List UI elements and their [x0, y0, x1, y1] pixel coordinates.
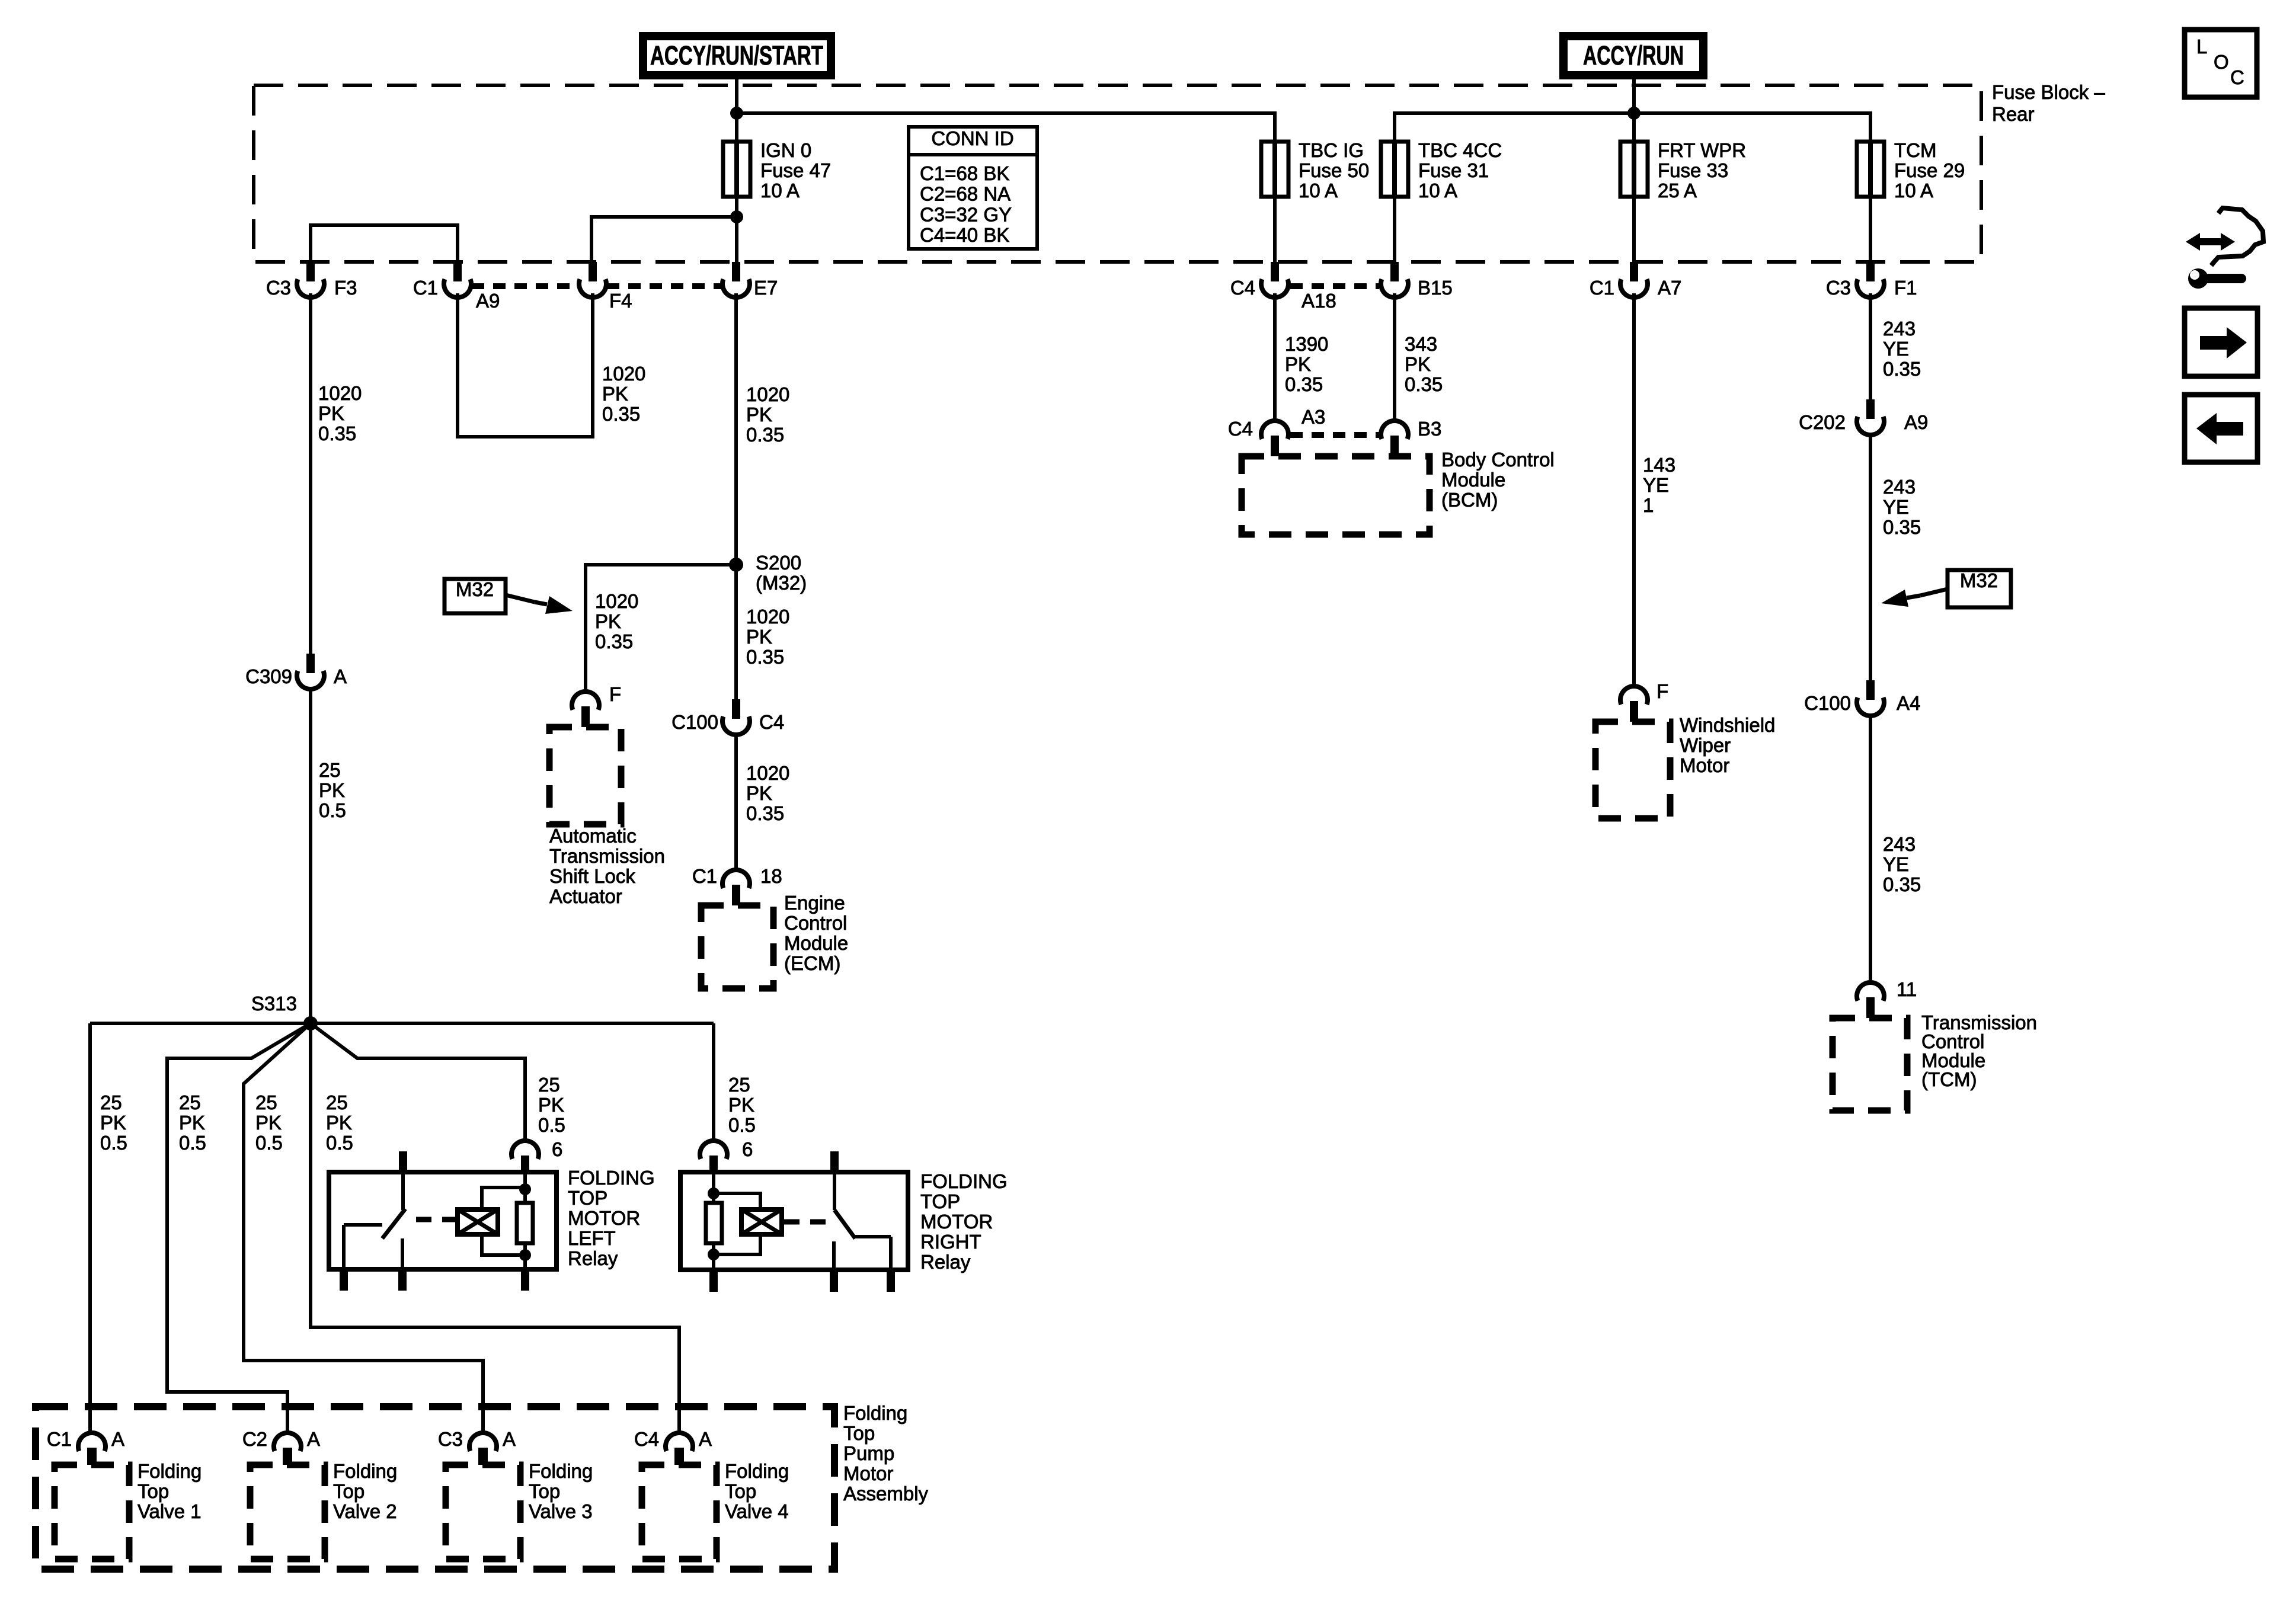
svg-text:Top: Top — [725, 1480, 756, 1502]
left relay coil bracket — [482, 1188, 525, 1255]
svg-text:C1: C1 — [47, 1428, 72, 1450]
svg-text:0.35: 0.35 — [1285, 373, 1323, 395]
component box Folding Top Valve 3 — [446, 1465, 520, 1559]
wire TBC IG fuse to terminal A18 — [1273, 197, 1277, 262]
svg-text:143: 143 — [1643, 454, 1675, 476]
right relay actuation dash link — [784, 1219, 829, 1225]
wire 1020 PK from F3 to C309 — [309, 293, 312, 654]
label Folding Top Valve 2 — [333, 1460, 397, 1522]
svg-text:C1: C1 — [1590, 277, 1614, 299]
connector C1 pin A of valve 1 — [78, 1433, 105, 1465]
right relay pin top (switch) — [830, 1151, 839, 1172]
label wire 25 PK 0.5 (right relay) — [728, 1074, 756, 1136]
wire S313 to valve 4 — [311, 1023, 679, 1433]
svg-text:Module: Module — [1441, 469, 1505, 491]
svg-text:F4: F4 — [609, 290, 632, 312]
label C202 — [1799, 411, 1846, 433]
svg-text:C4=40 BK: C4=40 BK — [920, 224, 1009, 246]
left relay junction top — [519, 1183, 531, 1195]
connector C3 pin A of valve 3 — [469, 1433, 497, 1465]
svg-text:ACCY/RUN: ACCY/RUN — [1583, 40, 1684, 71]
svg-text:25: 25 — [255, 1092, 277, 1113]
svg-text:C2=68 NA: C2=68 NA — [920, 183, 1011, 205]
svg-text:L: L — [2196, 36, 2207, 57]
label F — [609, 683, 621, 705]
label A4 — [1897, 692, 1920, 714]
svg-text:Pump: Pump — [843, 1442, 894, 1464]
svg-text:Top: Top — [843, 1422, 875, 1444]
svg-text:0.5: 0.5 — [326, 1132, 353, 1154]
svg-text:A: A — [334, 665, 347, 687]
svg-text:M32: M32 — [456, 578, 494, 600]
svg-text:Valve 1: Valve 1 — [137, 1500, 202, 1522]
wire IGN 0 fuse to terminal E7 — [735, 217, 738, 262]
fuse TCM Fuse 29 10A — [1857, 142, 1884, 197]
svg-text:C100: C100 — [671, 711, 718, 733]
svg-text:25: 25 — [728, 1074, 750, 1096]
connector C1 terminal F4 — [579, 262, 606, 297]
label C3 — [266, 277, 291, 299]
svg-text:FRT WPR: FRT WPR — [1658, 139, 1746, 161]
label E7 — [754, 277, 778, 299]
right relay pin bottom right — [887, 1270, 895, 1292]
CONN ID table box — [909, 127, 1037, 249]
connector C1 terminal E7 — [722, 262, 750, 297]
label C1 — [47, 1428, 72, 1450]
svg-text:CONN ID: CONN ID — [931, 127, 1013, 149]
label 6 (left relay) — [552, 1138, 562, 1160]
label wire 1020 PK 0.35 (C100-ECM) — [746, 762, 789, 824]
fuse IGN 0 Fuse 47 10A — [723, 142, 750, 217]
svg-text:Actuator: Actuator — [549, 885, 622, 907]
label A9 — [1904, 411, 1928, 433]
svg-text:0.35: 0.35 — [1405, 373, 1443, 395]
wire 1020 PK S200 to C100 — [734, 565, 738, 699]
wire 1390 PK A18 to BCM A3 — [1273, 293, 1277, 421]
svg-text:Folding: Folding — [137, 1460, 202, 1482]
connector C2 pin A of valve 2 — [274, 1433, 301, 1465]
svg-text:Rear: Rear — [1992, 103, 2035, 125]
wire 143 YE A7 to wiper motor — [1632, 293, 1636, 686]
left relay actuation dash link — [416, 1217, 455, 1222]
label TCM Fuse 29 10 A — [1894, 139, 1965, 201]
label Fuse Block - Rear — [1992, 81, 2105, 125]
svg-text:PK: PK — [746, 782, 772, 804]
label wire 1020 PK 0.35 (F4) — [602, 363, 645, 425]
left relay switch — [344, 1172, 405, 1269]
svg-text:PK: PK — [319, 779, 345, 801]
connector pin 6 of left relay — [511, 1141, 539, 1172]
svg-text:PK: PK — [538, 1094, 564, 1116]
callout M32 box — [445, 578, 506, 613]
label Folding Top Valve 3 — [529, 1460, 593, 1522]
svg-text:0.5: 0.5 — [319, 799, 346, 821]
connector terminal B15 — [1381, 262, 1408, 297]
svg-text:A9: A9 — [1904, 411, 1928, 433]
svg-text:YE: YE — [1883, 853, 1909, 875]
svg-text:Relay: Relay — [920, 1251, 971, 1273]
connector C4 pin A3 of BCM — [1261, 421, 1288, 456]
label A — [111, 1428, 124, 1450]
wire rail to TBC 4CC fuse — [1395, 113, 1634, 142]
svg-text:10 A: 10 A — [1299, 180, 1338, 201]
CONN ID title — [931, 127, 1013, 149]
svg-text:25: 25 — [538, 1074, 560, 1096]
svg-text:243: 243 — [1883, 833, 1916, 855]
svg-text:Control: Control — [784, 912, 847, 934]
label Folding Top Valve 1 — [137, 1460, 202, 1522]
label C100 — [1804, 692, 1851, 714]
connector terminal F shift lock — [572, 692, 599, 727]
label wire 25 PK 0.5 (left relay) — [538, 1074, 565, 1136]
callout M32 arrow — [506, 595, 573, 614]
svg-text:Shift Lock: Shift Lock — [549, 865, 635, 887]
label 6 (right relay) — [742, 1138, 753, 1160]
svg-text:0.5: 0.5 — [100, 1132, 127, 1154]
dotted connector body A3-B3 — [1290, 432, 1379, 438]
wire S313 to valve 1 — [88, 1023, 92, 1433]
svg-text:C3=32 GY: C3=32 GY — [920, 203, 1012, 225]
svg-text:YE: YE — [1883, 338, 1909, 360]
svg-text:YE: YE — [1643, 474, 1669, 496]
label C4 — [634, 1428, 659, 1450]
label wire 143 YE 1 — [1643, 454, 1675, 516]
label S313 — [251, 993, 297, 1014]
wire branch S200 to shift lock actuator — [586, 565, 736, 691]
svg-text:A: A — [503, 1428, 516, 1450]
label B3 — [1418, 418, 1441, 440]
junction on ACCY/RUN feed — [1627, 107, 1641, 120]
svg-text:1390: 1390 — [1285, 333, 1328, 355]
svg-text:C2: C2 — [242, 1428, 267, 1450]
CONN ID rows — [920, 162, 1012, 246]
label FOLDING TOP MOTOR LEFT Relay — [568, 1167, 655, 1269]
label C4 — [759, 711, 784, 733]
svg-text:0.5: 0.5 — [179, 1132, 206, 1154]
svg-text:IGN 0: IGN 0 — [760, 139, 811, 161]
label wire 1020 PK 0.35 (S200-C100) — [746, 606, 789, 668]
label FRT WPR Fuse 33 25 A — [1658, 139, 1746, 201]
svg-text:25 A: 25 A — [1658, 180, 1697, 201]
svg-text:C1=68 BK: C1=68 BK — [920, 162, 1009, 184]
svg-text:0.5: 0.5 — [538, 1114, 565, 1136]
svg-text:0.35: 0.35 — [1883, 873, 1921, 895]
left relay pin bottom left — [340, 1269, 348, 1291]
svg-text:A18: A18 — [1302, 290, 1336, 312]
connector C3 terminal F1 — [1857, 262, 1884, 297]
svg-text:0.35: 0.35 — [746, 424, 784, 446]
svg-text:TBC IG: TBC IG — [1299, 139, 1364, 161]
svg-text:PK: PK — [179, 1112, 205, 1134]
dotted connector body A9-F4-E7 — [472, 283, 722, 289]
right relay coil bracket — [714, 1193, 760, 1254]
svg-text:Top: Top — [137, 1480, 169, 1502]
svg-text:FOLDING: FOLDING — [920, 1170, 1008, 1192]
component box Engine Control Module (ECM) — [701, 905, 773, 988]
inline connector C309 terminal A — [297, 654, 324, 689]
wire TCM fuse to terminal F1 — [1869, 197, 1872, 262]
svg-text:Engine: Engine — [784, 892, 845, 914]
connector C1 terminal A7 — [1620, 262, 1648, 297]
svg-text:Fuse 29: Fuse 29 — [1894, 159, 1965, 181]
label Windshield Wiper Motor — [1680, 714, 1775, 776]
label wire 243 YE 0.35 (C100-TCM) — [1883, 833, 1921, 895]
label wire 1390 PK 0.35 — [1285, 333, 1328, 395]
svg-text:YE: YE — [1883, 496, 1909, 518]
label C100 — [671, 711, 718, 733]
svg-text:(ECM): (ECM) — [784, 952, 840, 974]
svg-text:B15: B15 — [1418, 277, 1453, 299]
left relay pin bottom right (coil) — [521, 1269, 529, 1291]
svg-text:25: 25 — [319, 759, 341, 781]
component box Folding Top Valve 2 — [250, 1465, 325, 1559]
svg-text:C4: C4 — [1228, 418, 1253, 440]
svg-text:Automatic: Automatic — [549, 825, 637, 847]
svg-text:E7: E7 — [754, 277, 778, 299]
label wire 25 PK 0.5 (valve1) — [100, 1092, 127, 1154]
icon arrow previous box — [2185, 395, 2257, 462]
svg-text:6: 6 — [742, 1138, 753, 1160]
svg-text:1020: 1020 — [746, 762, 789, 784]
label 11 — [1897, 978, 1917, 1000]
wire S313 to left relay pin 6 — [311, 1023, 525, 1141]
svg-text:0.5: 0.5 — [255, 1132, 283, 1154]
svg-text:ACCY/RUN/START: ACCY/RUN/START — [650, 40, 823, 71]
svg-text:Fuse 31: Fuse 31 — [1418, 159, 1489, 181]
callout M32 arrow right — [1881, 589, 1948, 607]
connector C1 pin 18 of ECM — [722, 870, 750, 905]
svg-text:A3: A3 — [1302, 406, 1325, 428]
svg-text:A: A — [699, 1428, 712, 1450]
label A9 — [476, 290, 500, 312]
label wire 243 YE 0.35 (F1) — [1883, 318, 1921, 380]
svg-text:F: F — [1657, 680, 1668, 702]
component box Folding Top Valve 1 — [55, 1465, 129, 1559]
wire S313 to valve 2 — [167, 1023, 311, 1433]
label wire 25 PK 0.5 (valve4) — [326, 1092, 353, 1154]
connector C4 pin A of valve 4 — [666, 1433, 693, 1465]
svg-text:RIGHT: RIGHT — [920, 1231, 981, 1253]
wire 25 PK from C309 to S313 — [309, 689, 312, 1023]
component box Body Control Module (BCM) — [1242, 456, 1430, 534]
splice S313 — [303, 1016, 318, 1030]
label IGN 0 Fuse 47 10 A — [760, 139, 831, 201]
label C1 — [1590, 277, 1614, 299]
svg-text:Fuse 47: Fuse 47 — [760, 159, 831, 181]
svg-text:PK: PK — [255, 1112, 282, 1134]
svg-text:(M32): (M32) — [756, 572, 807, 594]
wire S313 to right relay pin 6 — [712, 1023, 715, 1141]
relay box FOLDING TOP MOTOR RIGHT — [680, 1172, 908, 1270]
wire 1020 PK C100 to ECM pin 18 — [734, 735, 738, 871]
label Folding Top Valve 4 — [725, 1460, 789, 1522]
power feed tag ACCY/RUN — [1559, 32, 1707, 79]
svg-text:A: A — [307, 1428, 320, 1450]
svg-text:Fuse Block –: Fuse Block – — [1992, 81, 2105, 103]
wire 343 PK B15 to BCM B3 — [1393, 293, 1396, 421]
svg-text:C4: C4 — [1230, 277, 1255, 299]
left relay resistor — [517, 1172, 533, 1269]
fuse FRT WPR Fuse 33 25A — [1620, 142, 1648, 197]
right relay resistor — [706, 1172, 722, 1270]
wire rail to TCM fuse — [1634, 113, 1870, 142]
wire ACCY/RUN/START tag to IGN 0 fuse — [735, 79, 738, 142]
label TBC 4CC Fuse 31 10 A — [1418, 139, 1502, 201]
svg-text:PK: PK — [318, 402, 344, 424]
svg-text:F: F — [609, 683, 621, 705]
svg-text:0.35: 0.35 — [1883, 358, 1921, 380]
svg-text:25: 25 — [100, 1092, 122, 1113]
label C3 — [438, 1428, 463, 1450]
svg-text:243: 243 — [1883, 476, 1916, 498]
label wire 1020 PK 0.35 (F3) — [318, 382, 362, 444]
svg-text:C3: C3 — [266, 277, 291, 299]
label S200 (M32) — [756, 552, 807, 594]
right relay switch — [834, 1172, 891, 1270]
label FOLDING TOP MOTOR RIGHT Relay — [920, 1170, 1008, 1273]
svg-text:Wiper: Wiper — [1680, 734, 1731, 756]
svg-text:Module: Module — [784, 932, 848, 954]
assembly dashed box Folding Top Pump Motor Assembly — [36, 1407, 834, 1569]
svg-text:Motor: Motor — [843, 1462, 893, 1484]
connector C3 terminal F3 — [297, 262, 324, 297]
right relay pin bottom center — [830, 1270, 838, 1292]
dotted connector body A18-B15 — [1290, 283, 1379, 289]
connector C4 terminal A18 — [1261, 262, 1288, 297]
svg-text:TOP: TOP — [568, 1187, 607, 1209]
label Automatic Transmission Shift Lock Actuator — [549, 825, 665, 907]
label A7 — [1658, 277, 1681, 299]
left relay pin bottom center — [398, 1269, 407, 1291]
jumper wire from IGN 0 fuse to terminal F4 — [591, 217, 737, 262]
wire FRT WPR fuse to terminal A7 — [1632, 197, 1636, 262]
svg-text:PK: PK — [1405, 353, 1431, 375]
right relay junction top — [708, 1188, 720, 1199]
svg-text:Transmission: Transmission — [549, 845, 665, 867]
svg-text:C309: C309 — [245, 665, 292, 687]
component box Folding Top Valve 4 — [642, 1465, 717, 1559]
svg-text:343: 343 — [1405, 333, 1437, 355]
svg-text:1: 1 — [1643, 494, 1654, 516]
label B15 — [1418, 277, 1453, 299]
callout M32 box right — [1948, 569, 2011, 607]
svg-text:B3: B3 — [1418, 418, 1441, 440]
left relay coil element — [458, 1209, 498, 1234]
svg-text:1020: 1020 — [595, 590, 638, 612]
label C4 — [1228, 418, 1253, 440]
svg-text:C1: C1 — [692, 865, 717, 887]
svg-text:LEFT: LEFT — [568, 1227, 616, 1249]
inline connector C100 terminal C4 — [722, 699, 750, 735]
svg-text:A4: A4 — [1897, 692, 1920, 714]
svg-text:PK: PK — [100, 1112, 126, 1134]
wire 243 YE C202 to C100 — [1869, 435, 1872, 680]
svg-text:1020: 1020 — [746, 606, 789, 628]
junction below IGN 0 fuse — [730, 210, 743, 223]
svg-text:Assembly: Assembly — [843, 1483, 929, 1505]
svg-text:TOP: TOP — [920, 1190, 960, 1212]
fuse TBC 4CC Fuse 31 10A — [1381, 142, 1408, 197]
wire rail to TBC IG fuse — [737, 113, 1275, 142]
label F4 — [609, 290, 632, 312]
svg-text:Motor: Motor — [1680, 754, 1729, 776]
icon LOC box — [2185, 30, 2257, 97]
inline connector C202 terminal A9 — [1857, 399, 1884, 435]
label 18 — [760, 865, 782, 887]
label F3 — [334, 277, 357, 299]
svg-text:0.5: 0.5 — [728, 1114, 756, 1136]
label Folding Top Pump Motor Assembly — [843, 1402, 929, 1505]
left relay junction bottom — [519, 1249, 531, 1261]
svg-text:10 A: 10 A — [1418, 180, 1457, 201]
label F — [1657, 680, 1668, 702]
label C4 — [1230, 277, 1255, 299]
fuse TBC IG Fuse 50 10A — [1261, 142, 1288, 197]
svg-text:S200: S200 — [756, 552, 801, 574]
svg-text:O: O — [2214, 51, 2229, 73]
connector pin 11 of TCM — [1857, 982, 1884, 1018]
wire 1020 PK loop A9 to F4 — [458, 293, 593, 437]
right relay coil element — [741, 1209, 782, 1234]
svg-text:Body Control: Body Control — [1441, 449, 1555, 470]
label A — [307, 1428, 320, 1450]
svg-text:18: 18 — [760, 865, 782, 887]
svg-text:PK: PK — [728, 1094, 754, 1116]
svg-text:11: 11 — [1897, 978, 1917, 1000]
label Engine Control Module (ECM) — [784, 892, 848, 974]
svg-text:FOLDING: FOLDING — [568, 1167, 655, 1189]
svg-text:A: A — [111, 1428, 124, 1450]
svg-text:A7: A7 — [1658, 277, 1681, 299]
svg-text:(TCM): (TCM) — [1921, 1068, 1977, 1090]
svg-text:PK: PK — [1285, 353, 1311, 375]
svg-text:0.35: 0.35 — [595, 630, 633, 652]
label C309 — [245, 665, 292, 687]
label Body Control Module (BCM) — [1441, 449, 1555, 511]
label C2 — [242, 1428, 267, 1450]
svg-text:Fuse 33: Fuse 33 — [1658, 159, 1728, 181]
svg-text:Folding: Folding — [529, 1460, 593, 1482]
connector terminal F wiper motor — [1620, 686, 1648, 722]
svg-text:0.35: 0.35 — [602, 403, 640, 425]
label wire 25 PK 0.5 (valve3) — [255, 1092, 283, 1154]
svg-text:Windshield: Windshield — [1680, 714, 1775, 736]
right relay junction bottom — [708, 1249, 720, 1260]
svg-text:0.35: 0.35 — [318, 422, 356, 444]
fuse block dashed boundary (Fuse Block - Rear) — [254, 85, 1981, 262]
svg-text:Relay: Relay — [568, 1247, 618, 1269]
wire 1020 PK from E7 to S200 — [734, 293, 738, 565]
svg-text:MOTOR: MOTOR — [920, 1211, 993, 1233]
component box Windshield Wiper Motor — [1595, 722, 1670, 818]
svg-text:Folding: Folding — [333, 1460, 397, 1482]
connector pin B3 of BCM — [1381, 421, 1408, 456]
svg-text:A9: A9 — [476, 290, 500, 312]
svg-text:C4: C4 — [759, 711, 784, 733]
svg-text:PK: PK — [602, 383, 628, 405]
label A3 — [1302, 406, 1325, 428]
wire S313 to valve 3 — [244, 1023, 483, 1433]
svg-text:C: C — [2230, 66, 2244, 88]
svg-text:1020: 1020 — [746, 383, 789, 405]
svg-text:0.35: 0.35 — [746, 646, 784, 668]
junction on IGN 0 feed — [730, 107, 743, 120]
svg-text:TBC 4CC: TBC 4CC — [1418, 139, 1502, 161]
component box Automatic Transmission Shift Lock Actuator — [549, 727, 621, 824]
label wire 343 PK 0.35 — [1405, 333, 1443, 395]
svg-text:PK: PK — [326, 1112, 352, 1134]
svg-text:PK: PK — [595, 610, 621, 632]
